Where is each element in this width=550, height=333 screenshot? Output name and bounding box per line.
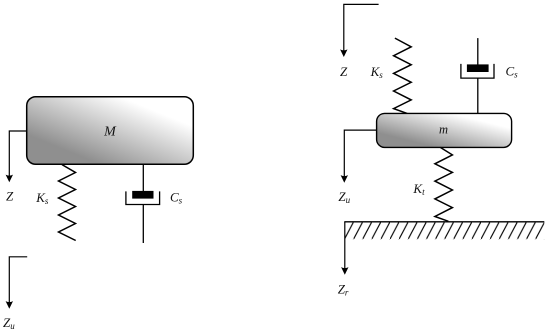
svg-text:Ks: Ks — [35, 190, 49, 206]
svg-text:Z: Z — [6, 188, 14, 203]
svg-text:Ks: Ks — [370, 64, 384, 80]
svg-text:Z: Z — [340, 64, 348, 79]
svg-text:Zu: Zu — [338, 189, 350, 205]
svg-text:Cs: Cs — [506, 64, 519, 80]
svg-text:Zu: Zu — [3, 315, 15, 331]
svg-text:Kt: Kt — [412, 181, 425, 197]
svg-text:Zr: Zr — [338, 282, 349, 298]
svg-text:M: M — [103, 125, 117, 140]
svg-text:m: m — [439, 122, 448, 136]
svg-text:Cs: Cs — [170, 190, 183, 206]
